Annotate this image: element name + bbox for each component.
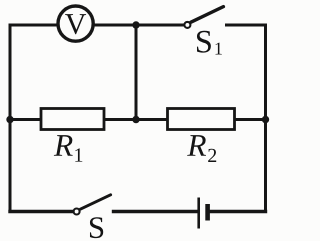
wire bottom-right segment (battery to corner) [208, 210, 266, 213]
voltmeter V1 letter [65, 14, 86, 34]
battery long plate (positive) [197, 198, 200, 229]
resistor R2 label [187, 135, 206, 156]
voltmeter V1 circle [58, 6, 93, 41]
wire middle horizontal (left node to right node, passes under R1/R2) [10, 118, 266, 121]
switch S1 blade [191, 7, 224, 23]
resistor R2 body [168, 109, 235, 130]
wire top-right segment (after switch S1 to top-right corner) [227, 24, 266, 27]
battery short plate (negative) [205, 204, 210, 221]
node junction left (middle wire / left edge) [6, 116, 13, 123]
resistor R1 label [54, 135, 73, 156]
resistor R1 body [41, 109, 104, 130]
switch S1 hinge circle [184, 22, 190, 28]
switch S1 label [197, 31, 211, 53]
node junction top (top wire / center vertical) [132, 21, 139, 28]
wire bottom-middle segment (switch S to battery) [114, 210, 198, 213]
switch S hinge circle [74, 209, 80, 215]
node junction middle (middle wire / center vertical) [132, 116, 139, 123]
node junction right (middle wire / right edge) [262, 116, 269, 123]
switch S label [90, 217, 103, 238]
wire right edge [264, 25, 267, 212]
switch S blade [80, 195, 110, 209]
wire bottom-left segment (corner to switch S circle) [10, 210, 73, 213]
wire center vertical (top node to middle node) [135, 25, 138, 120]
wire top-left segment (corner to switch S1 circle, passes under voltmeter) [10, 24, 185, 27]
wire left edge [9, 25, 12, 212]
